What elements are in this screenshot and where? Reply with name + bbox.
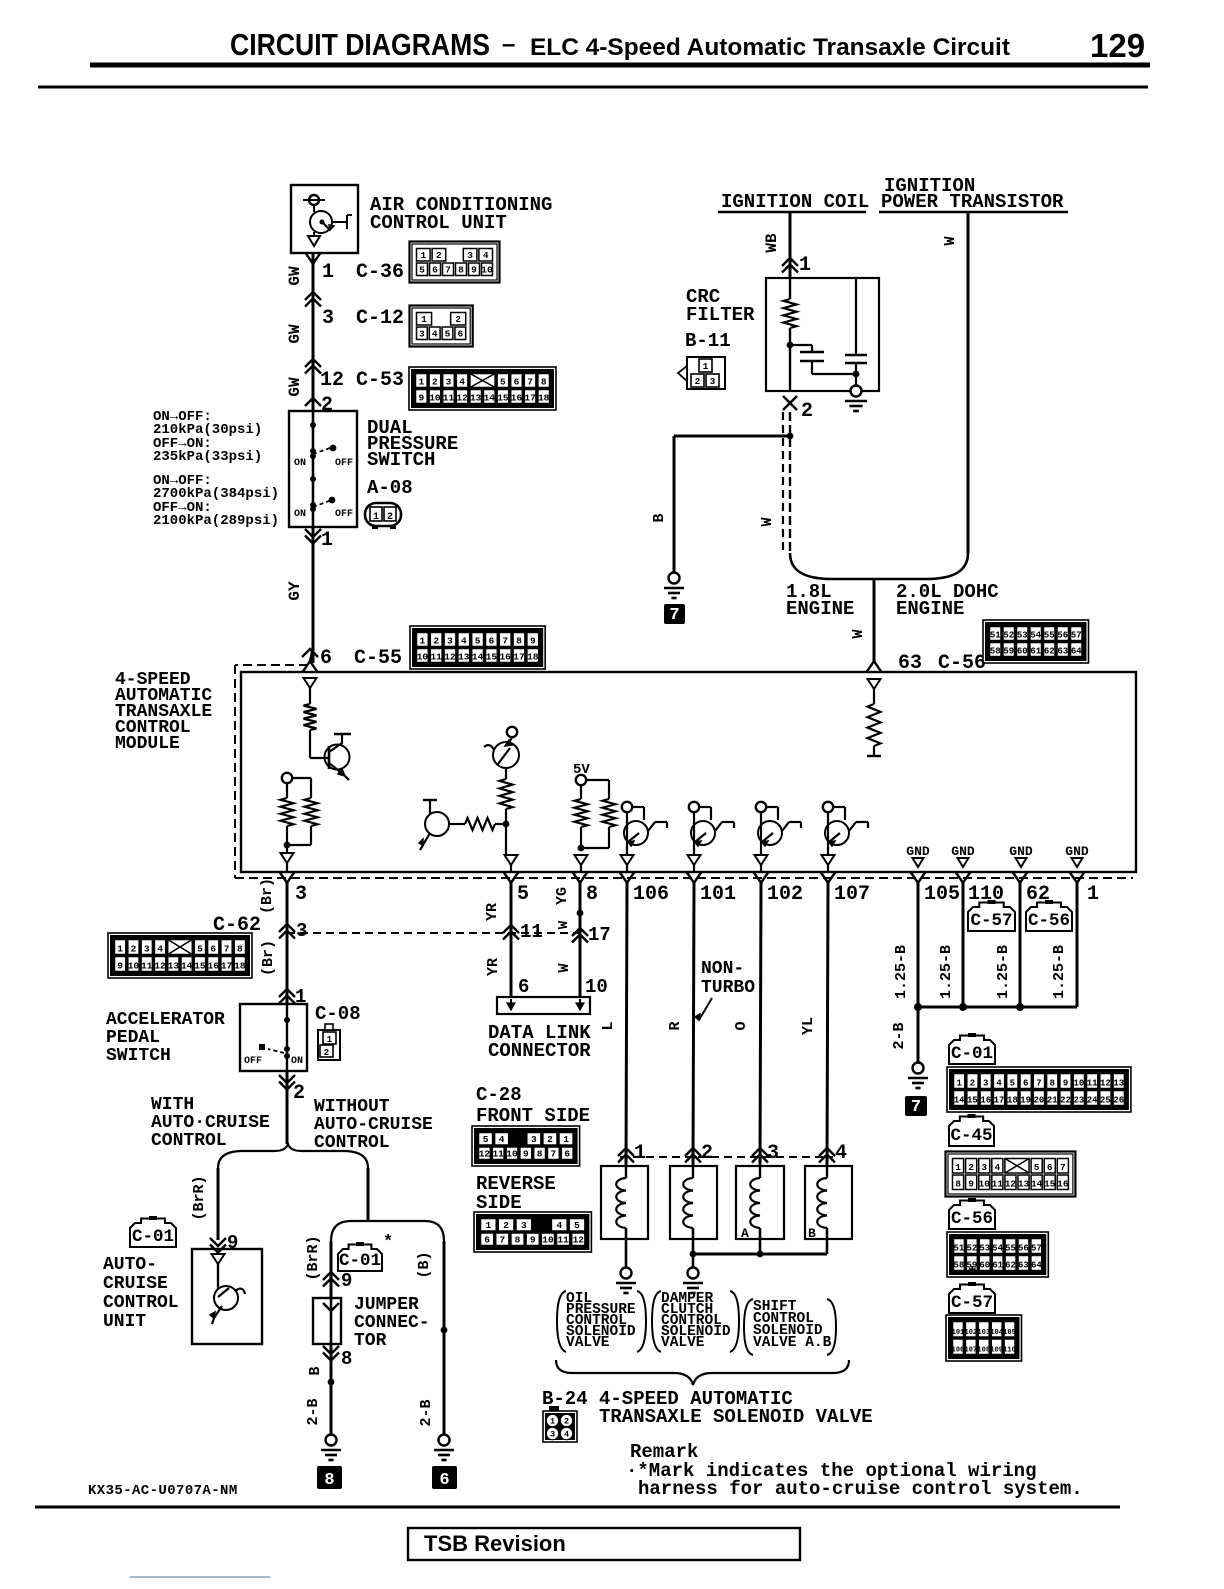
connector C-57 icon lower xyxy=(946,1315,1022,1361)
svg-text:SIDE: SIDE xyxy=(476,1192,522,1214)
ground reference box 7 xyxy=(664,604,685,624)
module circuit pin5: base resistor xyxy=(449,823,465,825)
svg-text:15: 15 xyxy=(1044,1179,1056,1190)
svg-text:GW: GW xyxy=(286,324,304,344)
svg-text:CRUISE: CRUISE xyxy=(103,1274,168,1294)
svg-text:8: 8 xyxy=(541,377,547,388)
svg-text:O: O xyxy=(733,1021,750,1030)
svg-text:CONNECTOR: CONNECTOR xyxy=(488,1040,591,1062)
svg-text:3: 3 xyxy=(419,329,425,340)
svg-text:8: 8 xyxy=(515,1235,521,1246)
svg-text:9: 9 xyxy=(968,1179,974,1190)
svg-text:C-01: C-01 xyxy=(339,1251,381,1271)
splice dot wire 8 xyxy=(577,910,584,917)
svg-text:1: 1 xyxy=(373,512,379,523)
CRC filter box B-11 xyxy=(766,278,879,391)
ground terminal of wire B xyxy=(669,573,680,584)
svg-text:POWER TRANSISTOR: POWER TRANSISTOR xyxy=(881,191,1064,213)
svg-text:3: 3 xyxy=(447,636,453,647)
svg-text:GND: GND xyxy=(1009,844,1033,859)
module output triangle pin 106 xyxy=(621,855,634,865)
svg-text:ON: ON xyxy=(291,1056,303,1067)
connector label box C-57 at pin 110 xyxy=(968,903,1015,932)
svg-text:6: 6 xyxy=(320,647,332,670)
connector C-56 icon top xyxy=(983,620,1089,663)
svg-text:62: 62 xyxy=(1005,1261,1016,1271)
svg-text:FRONT SIDE: FRONT SIDE xyxy=(476,1105,590,1127)
svg-text:9: 9 xyxy=(530,1235,536,1246)
connector A-08 icon xyxy=(365,503,401,526)
svg-text:3: 3 xyxy=(295,883,307,906)
air conditioning control unit box xyxy=(291,185,358,253)
svg-text:106: 106 xyxy=(952,1347,965,1355)
svg-text:13: 13 xyxy=(470,393,482,404)
svg-text:9: 9 xyxy=(471,265,477,276)
svg-text:C-45: C-45 xyxy=(950,1126,992,1146)
svg-text:B-24: B-24 xyxy=(542,1388,588,1410)
svg-text:4: 4 xyxy=(499,1134,505,1145)
svg-text:CONTROL: CONTROL xyxy=(103,1293,179,1313)
svg-text:102: 102 xyxy=(767,883,803,906)
module circuit pin3: supply terminal xyxy=(282,773,292,783)
svg-text:CONTROL: CONTROL xyxy=(151,1131,227,1151)
svg-text:CONTROL UNIT: CONTROL UNIT xyxy=(370,212,507,234)
svg-text:6: 6 xyxy=(457,329,463,340)
module circuit pin63: input triangle and resistor xyxy=(868,679,881,689)
svg-text:1: 1 xyxy=(117,944,123,955)
svg-text:C-56: C-56 xyxy=(951,1209,993,1229)
svg-text:9: 9 xyxy=(341,1270,352,1292)
svg-text:12: 12 xyxy=(479,1149,491,1160)
header rule thin xyxy=(38,86,1148,89)
svg-text:4: 4 xyxy=(461,636,467,647)
svg-text:63: 63 xyxy=(1018,1261,1029,1271)
junction 63 fork at C-56 module entry xyxy=(867,661,875,672)
svg-text:2: 2 xyxy=(503,1220,509,1231)
svg-text:1: 1 xyxy=(550,1417,555,1427)
svg-text:1: 1 xyxy=(418,377,424,388)
wire O from pin 102 xyxy=(760,883,761,1166)
junction 3 at C-62 xyxy=(279,924,295,932)
wire 1.25-B from pin 1 xyxy=(1076,883,1079,1007)
connector C-45 icon xyxy=(946,1152,1076,1197)
ground terminal solenoid 1 xyxy=(621,1268,632,1279)
svg-text:106: 106 xyxy=(633,883,669,906)
svg-text:1.25-B: 1.25-B xyxy=(893,945,910,999)
svg-text:2: 2 xyxy=(701,1142,713,1165)
svg-text:3: 3 xyxy=(983,1079,988,1089)
svg-text:52: 52 xyxy=(1003,631,1014,641)
connector C-53 icon xyxy=(409,367,556,410)
junction 1 at accelerator pedal switch xyxy=(279,989,295,997)
svg-text:1: 1 xyxy=(486,1220,492,1231)
svg-text:16: 16 xyxy=(499,652,511,663)
svg-text:6: 6 xyxy=(1047,1162,1053,1173)
wire Br from module pin 3 xyxy=(286,883,289,1004)
svg-text:6: 6 xyxy=(484,1235,490,1246)
svg-text:7: 7 xyxy=(551,1149,557,1160)
svg-text:JUMPER: JUMPER xyxy=(354,1295,419,1315)
dashed harness line at solenoid connectors xyxy=(620,1156,833,1158)
connector C-56 icon lower xyxy=(947,1232,1048,1277)
svg-text:4: 4 xyxy=(483,250,489,261)
svg-text:12: 12 xyxy=(320,369,344,392)
svg-text:W: W xyxy=(942,236,959,245)
svg-text:12: 12 xyxy=(444,652,456,663)
svg-text:(B): (B) xyxy=(416,1251,433,1278)
module circuit pin6: input triangle xyxy=(304,678,317,688)
svg-text:18: 18 xyxy=(1007,1096,1018,1106)
svg-text:61: 61 xyxy=(992,1261,1003,1271)
svg-text:3: 3 xyxy=(767,1142,779,1165)
svg-text:57: 57 xyxy=(1031,1244,1042,1254)
svg-text:102: 102 xyxy=(965,1329,978,1337)
svg-text:57: 57 xyxy=(1071,631,1082,641)
svg-text:16: 16 xyxy=(208,961,220,972)
svg-text:3: 3 xyxy=(981,1162,987,1173)
svg-text:L: L xyxy=(600,1021,617,1030)
wire 1.25-B from pin 62 xyxy=(1019,883,1022,1007)
svg-text:WB: WB xyxy=(763,233,781,253)
svg-text:56: 56 xyxy=(1018,1244,1029,1254)
connector C-28 reverse side icon xyxy=(474,1212,591,1252)
svg-text:6: 6 xyxy=(210,944,216,955)
svg-text:104: 104 xyxy=(990,1329,1003,1337)
connector label box C-01 xyxy=(949,1036,995,1065)
svg-text:103: 103 xyxy=(977,1329,990,1337)
svg-text:14: 14 xyxy=(472,652,484,663)
svg-text:B: B xyxy=(307,1366,324,1375)
svg-text:(Br): (Br) xyxy=(259,878,276,914)
svg-text:1: 1 xyxy=(799,254,811,277)
svg-text:56: 56 xyxy=(1057,631,1068,641)
optional harness dashed wire W xyxy=(782,412,784,550)
svg-text:ENGINE: ENGINE xyxy=(786,598,854,620)
svg-text:51: 51 xyxy=(954,1244,965,1254)
svg-text:2: 2 xyxy=(324,1048,329,1058)
engine harness merge curves xyxy=(790,553,874,579)
svg-text:6: 6 xyxy=(489,636,495,647)
svg-text:12: 12 xyxy=(154,961,166,972)
svg-text:5: 5 xyxy=(500,377,506,388)
svg-text:22: 22 xyxy=(1060,1096,1071,1106)
ground bus joining wires xyxy=(918,1006,1077,1009)
svg-text:5: 5 xyxy=(1034,1162,1040,1173)
svg-text:OFF: OFF xyxy=(244,1056,262,1067)
module driver transistor for pin 107 xyxy=(823,802,833,812)
svg-text:16: 16 xyxy=(1057,1179,1069,1190)
module pin forks and numbers xyxy=(280,872,288,883)
svg-text:18: 18 xyxy=(538,393,550,404)
svg-text:7: 7 xyxy=(669,606,679,625)
dashed harness line at C-62 level xyxy=(287,932,580,934)
connector C-36 icon xyxy=(410,242,500,283)
svg-text:11: 11 xyxy=(443,393,455,404)
svg-text:YR: YR xyxy=(485,958,502,976)
svg-text:4: 4 xyxy=(835,1142,847,1165)
wire 1.25-B from pin 105 xyxy=(917,883,920,1007)
module circuit pin6: resistor xyxy=(309,688,311,704)
svg-text:GW: GW xyxy=(286,266,304,286)
connector C-55 icon xyxy=(410,626,545,669)
svg-text:58: 58 xyxy=(954,1261,965,1271)
svg-text:17: 17 xyxy=(994,1096,1005,1106)
module circuit pin5: transistor Q2 xyxy=(507,727,517,737)
svg-text:6: 6 xyxy=(1023,1079,1028,1089)
connector C-12 icon xyxy=(410,306,473,347)
svg-text:19: 19 xyxy=(1020,1096,1031,1106)
module output triangle pin 107 xyxy=(822,855,835,865)
svg-text:SWITCH: SWITCH xyxy=(106,1046,171,1066)
svg-text:5: 5 xyxy=(475,636,481,647)
svg-text:53: 53 xyxy=(979,1244,990,1254)
svg-text:8: 8 xyxy=(237,944,243,955)
svg-text:1.25-B: 1.25-B xyxy=(995,945,1012,999)
connector C-28 front side icon xyxy=(472,1126,580,1166)
scan artifact line xyxy=(130,1576,270,1578)
svg-text:CONNEC-: CONNEC- xyxy=(354,1313,430,1333)
svg-text:UNIT: UNIT xyxy=(103,1312,146,1332)
TSB Revision box xyxy=(408,1528,800,1560)
svg-text:GW: GW xyxy=(286,377,304,397)
connector C-08 icon xyxy=(318,1030,340,1060)
svg-text:2-B: 2-B xyxy=(418,1399,435,1426)
module circuit pin8: parallel resistors xyxy=(575,799,588,827)
svg-text:1: 1 xyxy=(563,1134,569,1145)
svg-text:VALVE A.B: VALVE A.B xyxy=(753,1335,832,1351)
connector label box C-56 lower xyxy=(949,1201,995,1230)
svg-text:10: 10 xyxy=(585,976,608,998)
svg-text:10: 10 xyxy=(1073,1079,1084,1089)
connector label box C-01 optional xyxy=(338,1245,382,1272)
svg-text:54: 54 xyxy=(992,1244,1003,1254)
svg-text:11: 11 xyxy=(557,1235,569,1246)
module solid box xyxy=(241,672,1136,872)
svg-text:4: 4 xyxy=(564,1430,569,1440)
junction 9 at auto-cruise control unit xyxy=(210,1238,226,1246)
svg-text:10: 10 xyxy=(481,265,493,276)
svg-text:harness for auto-cruise contro: harness for auto-cruise control system. xyxy=(638,1478,1083,1500)
svg-text:18: 18 xyxy=(234,961,246,972)
svg-text:SWITCH: SWITCH xyxy=(367,449,435,471)
svg-text:109: 109 xyxy=(990,1347,1003,1355)
auto-cruise control unit transistor xyxy=(212,1254,225,1264)
svg-text:2: 2 xyxy=(131,944,137,955)
svg-text:9: 9 xyxy=(523,1149,529,1160)
svg-text:2: 2 xyxy=(547,1134,553,1145)
footer rule xyxy=(35,1506,1120,1509)
module circuit pin3: parallel resistors xyxy=(286,783,288,798)
svg-text:10: 10 xyxy=(417,652,429,663)
solenoid common ground wire xyxy=(693,1253,827,1256)
svg-text:3: 3 xyxy=(144,944,150,955)
svg-text:4: 4 xyxy=(432,329,438,340)
svg-text:WITH: WITH xyxy=(151,1095,194,1115)
svg-text:15: 15 xyxy=(486,652,498,663)
svg-text:11: 11 xyxy=(992,1179,1004,1190)
svg-text:1: 1 xyxy=(322,261,334,284)
svg-text:24: 24 xyxy=(1087,1096,1098,1106)
wire below accelerator pedal switch xyxy=(286,1071,289,1144)
dual pressure switch box A-08 xyxy=(289,411,357,527)
connector C-01 icon xyxy=(947,1067,1131,1112)
svg-text:9: 9 xyxy=(418,393,424,404)
ground terminal solenoid 2 xyxy=(688,1268,699,1279)
svg-text:8: 8 xyxy=(1050,1079,1055,1089)
wire 2-B to ground xyxy=(917,1007,920,1062)
svg-text:1.25-B: 1.25-B xyxy=(938,945,955,999)
svg-text:8: 8 xyxy=(324,1471,334,1490)
connector chevrons on GW wire xyxy=(305,359,321,367)
svg-text:17: 17 xyxy=(221,961,233,972)
svg-text:IGNITION COIL: IGNITION COIL xyxy=(721,191,869,213)
svg-text:GND: GND xyxy=(1065,844,1089,859)
svg-text:5: 5 xyxy=(197,944,203,955)
svg-text:C-56: C-56 xyxy=(1028,911,1070,931)
svg-text:52: 52 xyxy=(966,1244,977,1254)
svg-text:2100kPa(289psi): 2100kPa(289psi) xyxy=(153,513,279,529)
module circuit pin5: transistor Q3 xyxy=(425,812,449,836)
svg-text:11: 11 xyxy=(141,961,153,972)
svg-text:14: 14 xyxy=(1031,1179,1043,1190)
svg-text:1: 1 xyxy=(956,1079,962,1089)
module driver transistor for pin 101 xyxy=(689,802,699,812)
capacitor 2 inside CRC filter xyxy=(855,278,857,355)
svg-text:1: 1 xyxy=(421,314,427,325)
svg-text:6: 6 xyxy=(439,1471,449,1490)
svg-text:61: 61 xyxy=(1030,647,1041,657)
splice dot xyxy=(441,1327,448,1334)
svg-text:AUTO-: AUTO- xyxy=(103,1255,157,1275)
junction 8 below jumper connector xyxy=(323,1346,339,1354)
svg-text:3: 3 xyxy=(467,250,473,261)
svg-text:5: 5 xyxy=(483,1134,489,1145)
svg-text:64: 64 xyxy=(1071,647,1082,657)
svg-text:TURBO: TURBO xyxy=(701,978,755,998)
svg-text:B: B xyxy=(808,1226,816,1241)
junction 2 below CRC filter xyxy=(783,396,797,410)
data link connector box xyxy=(497,997,590,1014)
connector B-24 icon xyxy=(549,1406,559,1411)
svg-text:C-57: C-57 xyxy=(970,911,1012,931)
svg-text:C-08: C-08 xyxy=(315,1003,361,1025)
svg-text:B: B xyxy=(651,513,668,522)
big brace under solenoid valves xyxy=(556,1360,849,1385)
svg-text:55: 55 xyxy=(1044,631,1055,641)
svg-text:9: 9 xyxy=(227,1232,238,1254)
svg-text:W: W xyxy=(556,963,573,972)
wire BrR with auto-cruise xyxy=(217,1168,220,1240)
svg-text:4: 4 xyxy=(157,944,163,955)
svg-text:18: 18 xyxy=(527,652,539,663)
svg-text:(BrR): (BrR) xyxy=(305,1235,322,1280)
svg-text:105: 105 xyxy=(1003,1329,1016,1337)
module driver transistor for pin 106 xyxy=(622,802,632,812)
oil pressure control solenoid valve coil xyxy=(601,1166,648,1239)
svg-text:235kPa(33psi): 235kPa(33psi) xyxy=(153,449,262,465)
svg-text:C-01: C-01 xyxy=(951,1044,993,1064)
svg-text:OFF: OFF xyxy=(335,509,353,520)
svg-text:2-B: 2-B xyxy=(305,1398,322,1425)
svg-text:C-01: C-01 xyxy=(132,1227,174,1247)
svg-text:2: 2 xyxy=(432,377,438,388)
svg-text:7: 7 xyxy=(1060,1162,1066,1173)
svg-text:1: 1 xyxy=(321,529,333,552)
svg-text:9: 9 xyxy=(530,636,536,647)
svg-text:YL: YL xyxy=(800,1017,817,1035)
junction 1 fork at C-36 xyxy=(306,253,314,264)
module output triangle pin 101 xyxy=(688,855,701,865)
ground reference box 8 xyxy=(317,1466,342,1489)
svg-text:108: 108 xyxy=(977,1347,990,1355)
svg-text:101: 101 xyxy=(700,883,736,906)
wire GW from A/C unit to dual pressure switch xyxy=(312,253,315,411)
svg-text:7: 7 xyxy=(911,1098,921,1117)
header rule thick xyxy=(90,63,1150,68)
svg-text:4: 4 xyxy=(459,377,465,388)
svg-text:WITHOUT: WITHOUT xyxy=(314,1097,390,1117)
svg-text:10: 10 xyxy=(128,961,140,972)
svg-text:7: 7 xyxy=(1036,1079,1041,1089)
svg-text:NON-: NON- xyxy=(701,959,744,979)
shift control solenoid valve B coil xyxy=(805,1166,852,1239)
svg-text:7: 7 xyxy=(502,636,508,647)
svg-text:2-B: 2-B xyxy=(891,1022,908,1049)
second harness split bracket xyxy=(331,1221,444,1241)
module circuit pin8: output triangle xyxy=(575,855,588,865)
svg-text:12: 12 xyxy=(1100,1079,1111,1089)
svg-text:53: 53 xyxy=(1017,631,1028,641)
module circuit pin5: resistor xyxy=(500,779,513,809)
svg-text:4: 4 xyxy=(994,1162,1000,1173)
svg-text:GY: GY xyxy=(286,581,304,601)
svg-text:5: 5 xyxy=(1010,1079,1015,1089)
svg-text:11: 11 xyxy=(520,921,543,943)
junction 2 below accelerator pedal switch xyxy=(279,1075,295,1083)
svg-text:107: 107 xyxy=(965,1347,978,1355)
auto-cruise control unit box xyxy=(192,1249,262,1344)
svg-text:105: 105 xyxy=(924,883,960,906)
svg-text:3: 3 xyxy=(296,920,307,942)
wire BrR jumper path xyxy=(330,1241,333,1298)
svg-text:8: 8 xyxy=(537,1149,543,1160)
svg-text:ACCELERATOR: ACCELERATOR xyxy=(106,1010,225,1030)
svg-text:7: 7 xyxy=(445,265,451,276)
svg-text:16: 16 xyxy=(980,1096,991,1106)
svg-text:1.25-B: 1.25-B xyxy=(1051,945,1068,999)
svg-text:VALVE: VALVE xyxy=(661,1335,705,1351)
svg-text:4: 4 xyxy=(996,1079,1002,1089)
svg-text:1: 1 xyxy=(634,1142,646,1165)
svg-text:4: 4 xyxy=(556,1220,562,1231)
switch 1 contacts xyxy=(310,422,316,428)
svg-text:C-12: C-12 xyxy=(356,307,404,330)
module dashed outline xyxy=(235,664,308,666)
junction 2 above dual pressure switch xyxy=(305,398,321,406)
wire through jumper connector xyxy=(330,1298,333,1344)
svg-text:7: 7 xyxy=(527,377,533,388)
module output triangle pin 102 xyxy=(755,855,768,865)
wire GY to module pin 6 xyxy=(312,527,315,663)
svg-text:10: 10 xyxy=(429,393,441,404)
node inside CRC filter xyxy=(787,342,794,349)
resistor inside CRC filter xyxy=(789,278,791,299)
module circuit pin6: transistor Q1 xyxy=(310,757,329,759)
svg-text:3: 3 xyxy=(531,1134,537,1145)
connector chevrons on GW wire xyxy=(305,292,321,300)
svg-text:55: 55 xyxy=(1005,1244,1016,1254)
svg-text:17: 17 xyxy=(524,393,536,404)
